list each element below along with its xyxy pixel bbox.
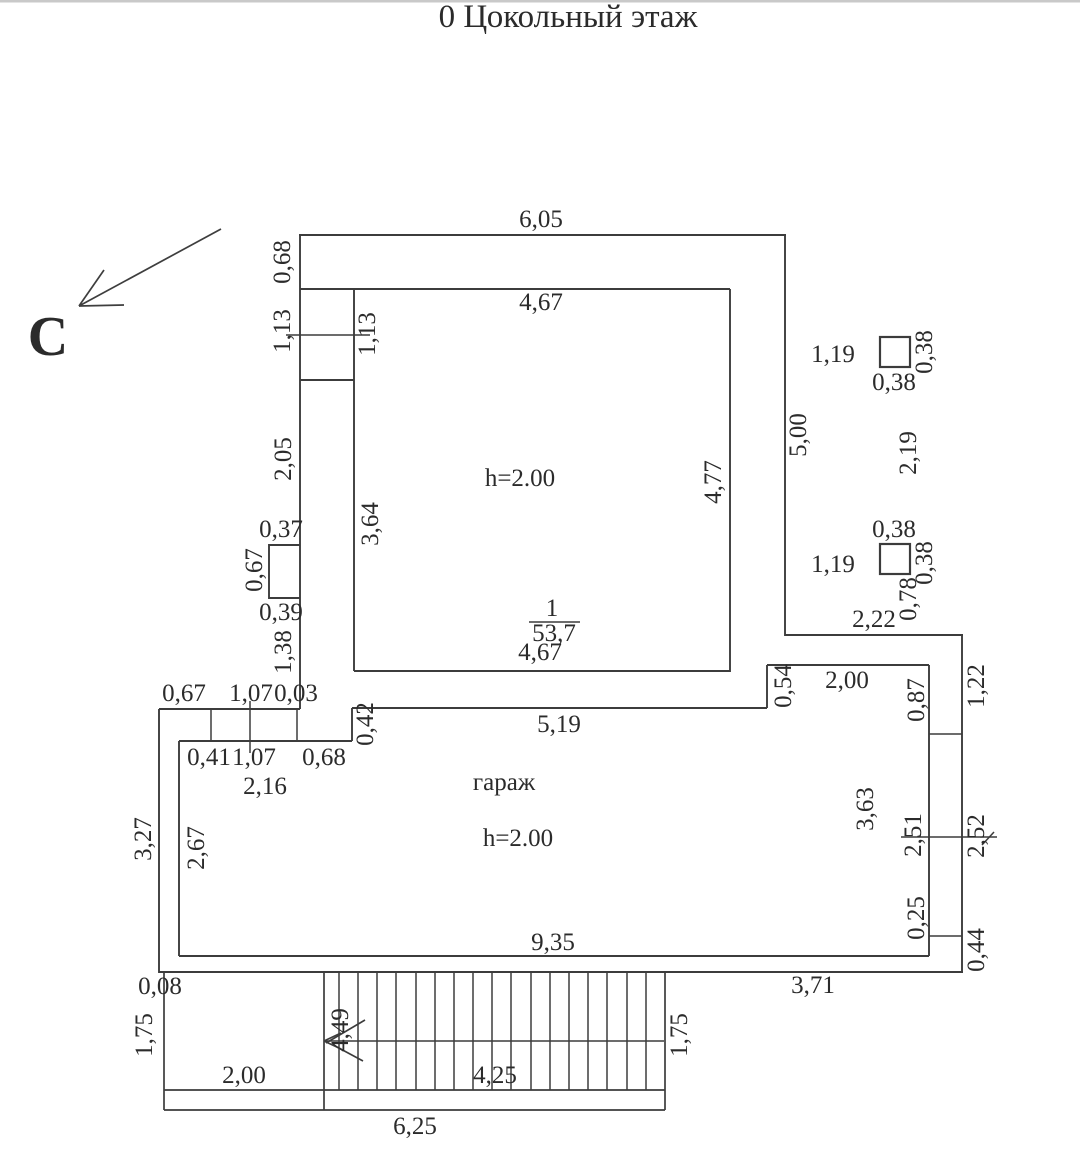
svg-text:0,42: 0,42: [352, 702, 379, 746]
svg-text:2,51: 2,51: [900, 813, 927, 857]
svg-text:4,77: 4,77: [700, 460, 727, 504]
wall: room1 inner right: [729, 289, 731, 672]
svg-text:h=2.00: h=2.00: [485, 465, 555, 492]
north arrow: [79, 229, 221, 306]
svg-text:1,38: 1,38: [270, 630, 297, 674]
svg-text:0,03: 0,03: [274, 680, 318, 707]
svg-text:0,54: 0,54: [770, 664, 797, 708]
wall: outer left lower (garage): [158, 709, 160, 973]
svg-text:3,64: 3,64: [357, 502, 384, 546]
svg-text:4,67: 4,67: [519, 289, 563, 316]
svg-text:2,00: 2,00: [222, 1062, 266, 1089]
wall: outer left upper: [299, 235, 301, 709]
svg-text:2,00: 2,00: [825, 667, 869, 694]
wall: garage inner bottom: [179, 955, 929, 957]
stair walking line with arrow: [324, 1020, 664, 1061]
svg-text:1,13: 1,13: [354, 312, 381, 356]
svg-text:0,67: 0,67: [241, 548, 268, 592]
svg-text:h=2.00: h=2.00: [483, 825, 553, 852]
svg-text:0,68: 0,68: [302, 744, 346, 771]
svg-text:5,19: 5,19: [537, 711, 581, 738]
wall: closet bottom: [300, 379, 354, 381]
svg-text:0,38: 0,38: [872, 516, 916, 543]
svg-text:1,19: 1,19: [811, 341, 855, 368]
svg-text:0 Цокольный этаж: 0 Цокольный этаж: [439, 0, 698, 35]
svg-text:2,16: 2,16: [243, 773, 287, 800]
dim line y839: [901, 836, 997, 838]
svg-text:0,08: 0,08: [138, 973, 182, 1000]
svg-text:4,67: 4,67: [518, 639, 562, 666]
svg-text:3,71: 3,71: [791, 972, 835, 999]
svg-text:0,37: 0,37: [259, 516, 303, 543]
svg-text:0,67: 0,67: [162, 680, 206, 707]
wall: garage top outer left: [159, 708, 300, 710]
svg-text:0,87: 0,87: [903, 678, 930, 722]
svg-text:4,25: 4,25: [473, 1062, 517, 1089]
svg-text:1,13: 1,13: [269, 309, 296, 353]
wall: room1 inner top: [300, 288, 730, 290]
dim tick 1,13 line: [286, 334, 370, 336]
svg-text:С: С: [28, 306, 68, 368]
dim tick right wall y936: [929, 935, 962, 937]
wall: outer top: [299, 234, 786, 236]
svg-text:2,67: 2,67: [183, 826, 210, 870]
svg-text:9,35: 9,35: [531, 929, 575, 956]
wall: room1 inner left: [353, 289, 355, 671]
dimension labels horizontal: [138, 206, 916, 1140]
svg-text:гараж: гараж: [473, 769, 536, 796]
svg-text:1,75: 1,75: [666, 1013, 693, 1057]
svg-text:0,39: 0,39: [259, 599, 303, 626]
column square 2: [880, 544, 910, 574]
wall: step at 2,22: [785, 634, 963, 636]
wall: notch vertical 0,54: [766, 665, 768, 708]
stairs right edge: [664, 972, 666, 1110]
top scan edge: [0, 0, 1080, 3]
niche on left wall: [269, 545, 300, 598]
svg-text:1,07: 1,07: [229, 680, 273, 707]
svg-text:3,27: 3,27: [130, 817, 157, 861]
svg-text:0,41: 0,41: [187, 744, 231, 771]
wall: outer right lower: [961, 635, 963, 973]
svg-text:0,68: 0,68: [269, 240, 296, 284]
dim tick x250 long: [249, 701, 251, 753]
wall: garage top 5,19: [352, 707, 767, 709]
wall: garage inner right: [928, 665, 930, 956]
wall: outer bottom: [159, 971, 963, 973]
svg-text:6,25: 6,25: [393, 1113, 437, 1140]
room1 fraction line: [529, 621, 580, 623]
porch outer bottom: [164, 1109, 665, 1111]
dim slash at y839: [982, 832, 994, 845]
stair treads: [339, 972, 646, 1090]
svg-text:2,52: 2,52: [963, 814, 990, 858]
dim tick right wall y734: [929, 733, 962, 735]
wall: step 0,42: [351, 708, 353, 741]
svg-text:0,25: 0,25: [903, 896, 930, 940]
svg-text:6,05: 6,05: [519, 206, 563, 233]
svg-text:5,00: 5,00: [785, 413, 812, 457]
svg-text:0,44: 0,44: [963, 928, 990, 972]
wall: garage inner left: [178, 741, 180, 956]
svg-text:4,49: 4,49: [327, 1008, 354, 1052]
dim tick x297: [296, 709, 298, 741]
svg-text:0,78: 0,78: [895, 577, 922, 621]
wall: outer right upper: [784, 234, 786, 636]
column square 1: [880, 337, 910, 367]
svg-text:0,38: 0,38: [911, 330, 938, 374]
wall: notch top 2,00: [767, 664, 929, 666]
svg-text:0,38: 0,38: [872, 369, 916, 396]
svg-text:1: 1: [546, 595, 559, 622]
dimension labels rotated: [130, 240, 990, 1057]
porch/stairs divider: [323, 972, 325, 1110]
dim tick x211: [210, 709, 212, 741]
svg-text:2,19: 2,19: [895, 431, 922, 475]
svg-text:1,07: 1,07: [232, 744, 276, 771]
svg-text:2,05: 2,05: [270, 437, 297, 481]
wall: garage inner top-left: [179, 740, 352, 742]
svg-text:1,75: 1,75: [131, 1013, 158, 1057]
svg-text:2,22: 2,22: [852, 606, 896, 633]
svg-text:1,22: 1,22: [963, 664, 990, 708]
svg-text:1,19: 1,19: [811, 551, 855, 578]
porch outline left: [163, 972, 165, 1110]
svg-text:3,63: 3,63: [852, 787, 879, 831]
wall: room1 inner bottom: [354, 670, 730, 672]
porch bottom step line: [164, 1089, 665, 1091]
